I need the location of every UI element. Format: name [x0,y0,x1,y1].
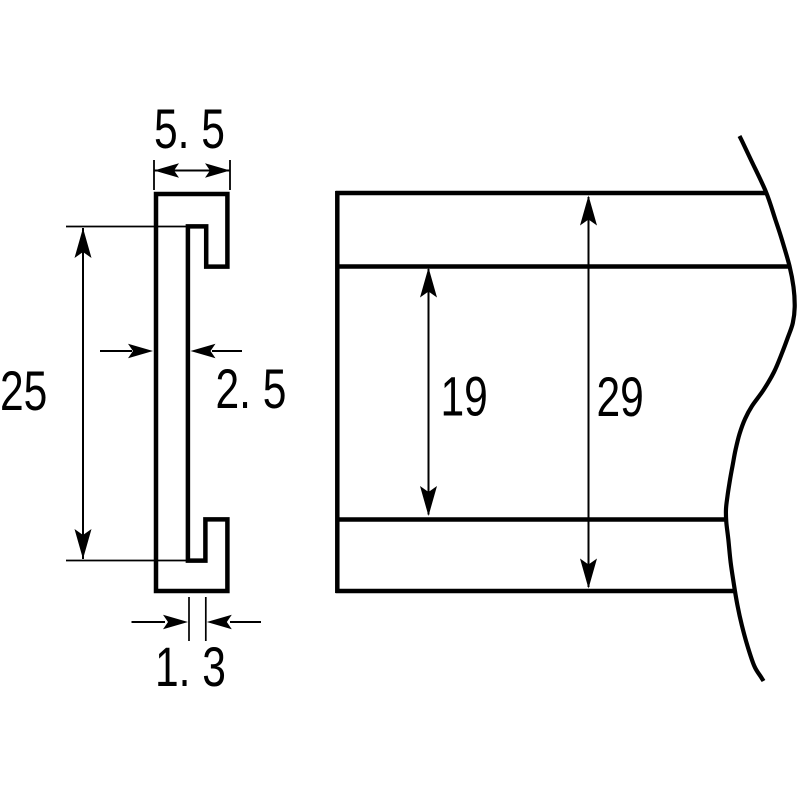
dimension 2.5 arrow right (points left at plate inner face) [212,350,242,352]
dimension 5.5 arrowhead right [205,163,230,177]
rail front view bottom line L4 [336,589,734,594]
dimension 19 arrowhead down [420,486,437,516]
svg-text:1. 3: 1. 3 [155,635,226,698]
dimension 1.3 extension line right [205,597,207,641]
svg-text:5. 5: 5. 5 [154,97,225,160]
dimension 5.5 extension tick left [153,160,155,190]
profile outline (left cross-section view) [156,194,227,591]
svg-text:19: 19 [441,365,488,428]
dimension 25 arrowhead down [75,529,92,559]
svg-text:25: 25 [0,359,47,422]
dimension 25 line [82,228,84,559]
dimension 29 line [588,197,590,587]
dimension 25 extension line top [66,226,186,228]
dimension 1.3 arrow left (points right) [132,621,166,623]
dimension 29 arrowhead down [580,559,597,589]
rail front view left edge [335,191,340,593]
dimension 5.5 line [154,170,230,172]
break curve (wavy cut line) [726,136,795,681]
dimension 29 arrowhead up [580,196,597,226]
dimension 25 arrowhead up [75,228,92,258]
dimension 19 arrowhead up [420,268,437,298]
dimension 5.5 extension tick right [229,160,231,190]
dimension 19 line [428,269,430,515]
dimension 1.3 arrow right (points left) [230,621,261,623]
dimension 1.3 extension line left [188,597,190,641]
rail front view top line L1 [336,191,766,196]
rail front view line L2 [336,264,790,269]
svg-text:2. 5: 2. 5 [216,357,287,420]
dimension 25 extension line bottom [66,560,186,562]
dimension 2.5 arrow left (points right at plate outer face) [100,350,132,352]
dimension 5.5 arrowhead left [154,163,179,177]
rail front view line L3 [336,517,727,522]
svg-text:29: 29 [597,365,644,428]
